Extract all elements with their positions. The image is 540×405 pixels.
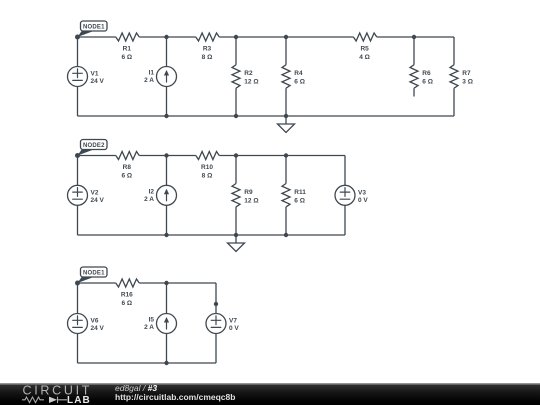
current source I1 [144, 37, 176, 116]
svg-text:http://circuitlab.com/cmeqc8b: http://circuitlab.com/cmeqc8b [115, 392, 235, 402]
resistor R10 [196, 152, 219, 180]
resistor R5 [353, 33, 376, 61]
current source I2 [144, 156, 176, 236]
current source I5 [144, 283, 176, 363]
wire bottom rail (bottom circuit) [78, 362, 217, 364]
svg-text:NODE2: NODE2 [83, 143, 105, 149]
svg-text:2 A: 2 A [144, 77, 154, 84]
svg-text:0 V: 0 V [358, 197, 368, 204]
wire top rail: R3 to R5 [219, 36, 353, 38]
svg-text:NODE1: NODE1 [83, 270, 105, 276]
svg-text:R16: R16 [121, 292, 133, 299]
svg-text:R9: R9 [244, 189, 253, 196]
junction at R11 bottom [284, 233, 288, 237]
resistor R8 [116, 152, 139, 180]
junction at R4 top [284, 35, 288, 39]
svg-text:R6: R6 [422, 70, 431, 77]
svg-text:6 Ω: 6 Ω [294, 197, 305, 204]
node NODE2 flag (middle circuit) [75, 140, 107, 159]
resistor R1 [116, 33, 139, 61]
svg-text:6 Ω: 6 Ω [121, 173, 132, 180]
svg-text:R3: R3 [203, 46, 212, 53]
svg-text:4 Ω: 4 Ω [359, 54, 370, 61]
footer bar background [0, 383, 540, 405]
svg-text:2 A: 2 A [144, 196, 154, 203]
svg-text:R7: R7 [462, 70, 471, 77]
CircuitLab logo: resistor-diode motif [22, 397, 67, 403]
svg-text:6 Ω: 6 Ω [422, 79, 433, 86]
svg-text:I2: I2 [149, 188, 155, 195]
svg-text:R1: R1 [123, 46, 132, 53]
junction on V7 branch [214, 302, 218, 306]
junction at I1 bottom [164, 114, 168, 118]
resistor R7 [450, 37, 473, 116]
ground (top circuit) [278, 116, 295, 133]
svg-text:8 Ω: 8 Ω [202, 54, 213, 61]
voltage source V3 [335, 156, 368, 236]
junction at R11 top [284, 153, 288, 157]
svg-text:12 Ω: 12 Ω [244, 197, 258, 204]
resistor R3 [196, 33, 219, 61]
resistor R2 [232, 37, 259, 116]
svg-text:R11: R11 [294, 189, 306, 196]
svg-text:6 Ω: 6 Ω [294, 79, 305, 86]
svg-text:R8: R8 [123, 164, 132, 171]
wire bottom rail (middle circuit) [78, 234, 346, 236]
junction at I5 bottom [164, 361, 168, 365]
node NODE1 flag (bottom circuit) [75, 267, 107, 286]
svg-text:I1: I1 [149, 70, 155, 77]
wire top rail: R10 to V3 [219, 155, 345, 157]
wire top rail: R8 to R10 [139, 155, 196, 157]
ground (middle circuit) [228, 235, 245, 252]
svg-text:24 V: 24 V [91, 78, 105, 85]
resistor R9 [232, 156, 259, 236]
junction at I2 bottom [164, 233, 168, 237]
voltage source V1 [68, 37, 105, 116]
svg-text:6 Ω: 6 Ω [121, 300, 132, 307]
wire top rail: node to R1 [78, 36, 116, 38]
voltage source V2 [68, 156, 105, 236]
svg-text:V1: V1 [91, 71, 99, 78]
resistor R11 [282, 156, 306, 236]
svg-text:V2: V2 [91, 189, 99, 196]
svg-text:R4: R4 [294, 70, 303, 77]
wire top rail: node to R16 [78, 282, 116, 284]
svg-text:24 V: 24 V [91, 197, 105, 204]
svg-text:12 Ω: 12 Ω [244, 79, 258, 86]
junction at I5 top [164, 281, 168, 285]
wire top rail: R16 to V7 corner [139, 282, 216, 284]
svg-text:8 Ω: 8 Ω [202, 173, 213, 180]
resistor R16 [116, 279, 139, 307]
svg-text:3 Ω: 3 Ω [462, 79, 473, 86]
junction at R6 top [412, 35, 416, 39]
junction at R2 top [234, 35, 238, 39]
node NODE1 flag (top circuit) [75, 21, 107, 40]
svg-text:24 V: 24 V [91, 325, 105, 332]
junction at I1 top [164, 35, 168, 39]
svg-text:V3: V3 [358, 189, 366, 196]
wire top rail: R1 to R3 [139, 36, 196, 38]
junction at I2 top [164, 153, 168, 157]
svg-text:I5: I5 [149, 317, 155, 324]
voltage source V7 [206, 283, 239, 363]
svg-text:6 Ω: 6 Ω [121, 54, 132, 61]
resistor R4 [282, 37, 305, 116]
wire top rail: node to R8 [78, 155, 116, 157]
wire bottom rail (top circuit) [78, 115, 455, 117]
svg-text:V7: V7 [229, 318, 237, 325]
svg-text:R5: R5 [360, 46, 369, 53]
svg-text:NODE1: NODE1 [83, 24, 105, 30]
junction at R9 bottom / ground tap [234, 233, 238, 237]
resistor R6 (dangling stub) [410, 37, 433, 97]
svg-text:R10: R10 [201, 164, 213, 171]
junction at R2 bottom [234, 114, 238, 118]
wire top rail: R5 to right corner [377, 36, 454, 38]
svg-text:V6: V6 [91, 318, 99, 325]
svg-text:0 V: 0 V [229, 325, 239, 332]
junction at R9 top [234, 153, 238, 157]
junction at R4 bottom / ground tap [284, 114, 288, 118]
voltage source V6 [68, 283, 105, 363]
svg-text:LAB: LAB [67, 395, 91, 405]
svg-text:2 A: 2 A [144, 324, 154, 331]
svg-text:R2: R2 [244, 70, 253, 77]
